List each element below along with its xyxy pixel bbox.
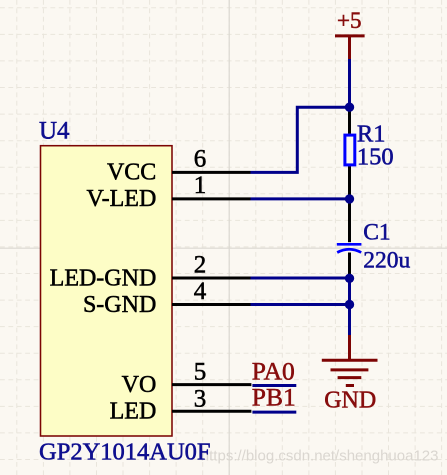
svg-text:VO: VO [122,372,157,398]
svg-text:LED: LED [110,399,157,425]
svg-text:PA0: PA0 [252,356,295,385]
svg-text:S-GND: S-GND [83,292,156,318]
svg-text:+5: +5 [337,8,361,33]
svg-text:3: 3 [194,385,207,412]
svg-text:5: 5 [194,358,207,385]
svg-text:4: 4 [194,278,207,305]
svg-text:LED-GND: LED-GND [50,265,157,291]
svg-text:GP2Y1014AU0F: GP2Y1014AU0F [39,438,211,465]
svg-text:GND: GND [324,387,376,413]
svg-text:PB1: PB1 [252,383,296,412]
svg-text:V-LED: V-LED [87,186,157,212]
svg-text:U4: U4 [39,118,70,145]
svg-text:https://blog.csdn.net/shenghuo: https://blog.csdn.net/shenghuoa123 [201,447,439,464]
svg-text:VCC: VCC [107,160,156,186]
svg-text:150: 150 [357,144,394,171]
svg-text:220u: 220u [363,248,410,274]
svg-text:2: 2 [194,251,207,278]
svg-text:1: 1 [194,172,207,199]
svg-text:C1: C1 [363,220,390,246]
svg-text:6: 6 [194,145,207,172]
